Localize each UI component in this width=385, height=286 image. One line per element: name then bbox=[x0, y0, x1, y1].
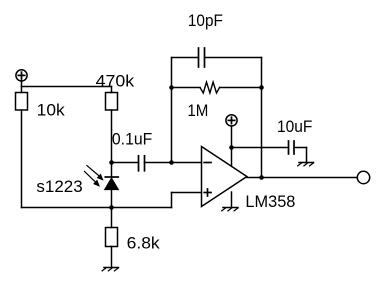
svg-text:10pF: 10pF bbox=[188, 11, 223, 30]
svg-text:LM358: LM358 bbox=[245, 192, 295, 211]
svg-text:6.8k: 6.8k bbox=[127, 234, 161, 253]
svg-text:s1223: s1223 bbox=[36, 177, 82, 196]
svg-text:10uF: 10uF bbox=[277, 117, 312, 136]
svg-text:1M: 1M bbox=[187, 101, 208, 120]
svg-text:470k: 470k bbox=[96, 72, 135, 91]
svg-text:0.1uF: 0.1uF bbox=[112, 129, 152, 148]
svg-text:10k: 10k bbox=[37, 101, 65, 120]
